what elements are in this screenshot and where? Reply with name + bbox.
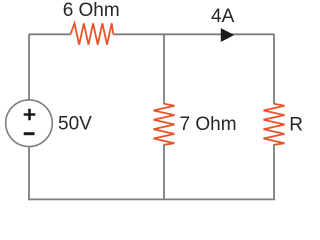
wire left bottom segment	[28, 146, 30, 200]
wire right top segment	[273, 34, 275, 104]
wire right bottom segment	[273, 144, 275, 199]
svg-text:4A: 4A	[211, 6, 235, 27]
svg-text:R: R	[289, 115, 303, 136]
svg-text:7 Ohm: 7 Ohm	[180, 114, 237, 135]
wire left top segment	[28, 34, 30, 100]
svg-text:50V: 50V	[58, 114, 92, 135]
wire middle top segment	[163, 34, 165, 104]
current arrow 4A	[221, 28, 234, 42]
wire top-left segment	[29, 33, 71, 35]
voltage source plus sign	[24, 109, 36, 121]
resistor 6 Ohm	[71, 23, 114, 44]
voltage source V1 circle	[6, 100, 53, 147]
wire middle bottom segment	[163, 144, 165, 199]
wire top-right segment	[113, 33, 274, 35]
svg-text:6 Ohm: 6 Ohm	[63, 0, 120, 21]
resistor R	[264, 104, 285, 145]
resistor 7 Ohm	[154, 104, 175, 145]
voltage source minus sign	[24, 132, 35, 135]
wire bottom segment	[28, 198, 275, 200]
